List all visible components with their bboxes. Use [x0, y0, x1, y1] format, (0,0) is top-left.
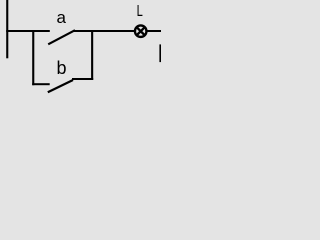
wire: branch bottom left to fixed contact of switch b — [32, 83, 50, 85]
switch b (NO contact blade) — [48, 80, 73, 92]
background — [0, 0, 161, 111]
switch a (NO contact blade) — [48, 30, 75, 44]
wire: lamp to right edge — [147, 30, 162, 32]
wire: switch a to lamp — [74, 30, 135, 32]
lamp L (circle with X) — [135, 25, 147, 37]
wire: switch b landing to right branch vertical — [72, 78, 93, 80]
wire: rail to fixed contact of switch a — [6, 30, 50, 32]
wire: right branch vertical (parallel path up) — [91, 30, 93, 80]
wire: left branch vertical (parallel path down) — [32, 30, 34, 85]
right supply rail (partially visible at edge) — [159, 44, 161, 62]
svg-text:a: a — [56, 8, 66, 27]
left supply rail — [6, 0, 8, 58]
svg-text:L: L — [137, 3, 143, 20]
svg-text:b: b — [56, 58, 66, 78]
